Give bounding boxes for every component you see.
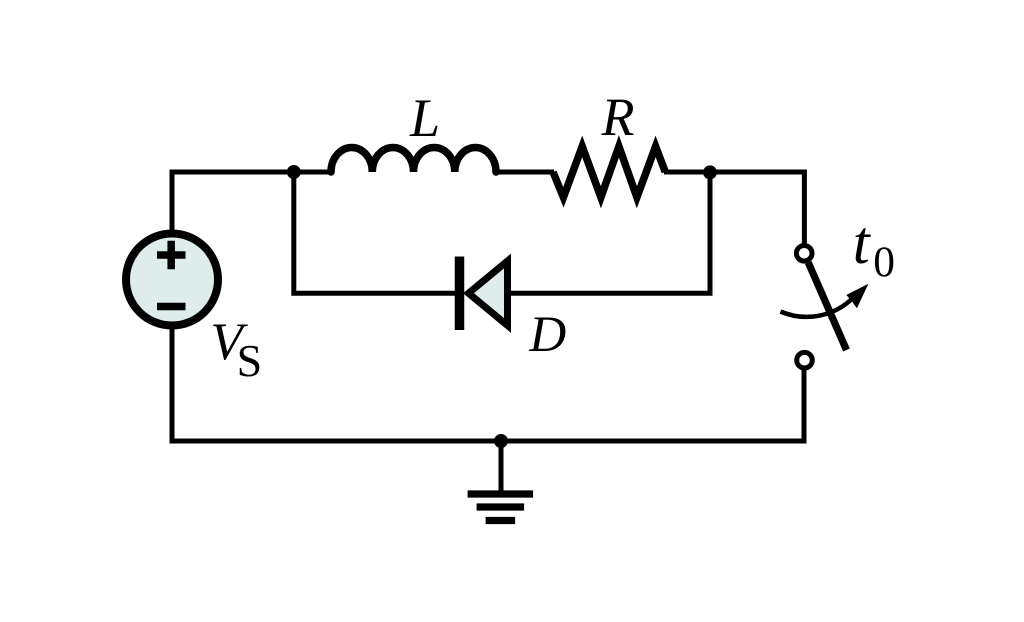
node B (junction dot right, top wire) (703, 165, 717, 179)
ground bar 3 (486, 517, 515, 524)
wire top-left: from source top up and right to inductor (172, 172, 332, 231)
wire diode branch right: from diode to node B (511, 172, 710, 293)
minus sign (157, 303, 186, 311)
switch arrowhead (848, 285, 867, 306)
diode D cathode bar (455, 257, 465, 331)
label D (529, 310, 566, 361)
wire top-right: from resistor to switch top (664, 172, 804, 244)
inductor L (331, 147, 496, 172)
label L (410, 91, 440, 145)
label t of t0 (853, 213, 870, 274)
node C (junction dot bottom, ground tap) (494, 434, 508, 448)
label S subscript of VS (237, 338, 263, 384)
wire ground stem (499, 441, 504, 491)
switch bottom contact circle (797, 352, 813, 368)
wire diode branch left: down from node A and right to diode (294, 172, 457, 293)
node A (junction dot left, top wire) (287, 165, 301, 179)
ground bar 2 (477, 503, 524, 510)
plus sign (157, 241, 186, 269)
voltage source VS circle (126, 234, 218, 326)
diode D triangle (469, 261, 508, 326)
wire left-bottom: from source bottom down, right along bottom (172, 328, 804, 441)
ground bar 1 (468, 490, 533, 497)
resistor R (553, 146, 665, 197)
label V of VS (210, 316, 242, 369)
wire between inductor and resistor (495, 170, 554, 175)
switch top contact circle (796, 246, 812, 262)
switch arc arrow (781, 297, 854, 317)
label R (602, 90, 635, 144)
switch blade (808, 263, 846, 350)
label 0 subscript of t0 (873, 241, 895, 285)
